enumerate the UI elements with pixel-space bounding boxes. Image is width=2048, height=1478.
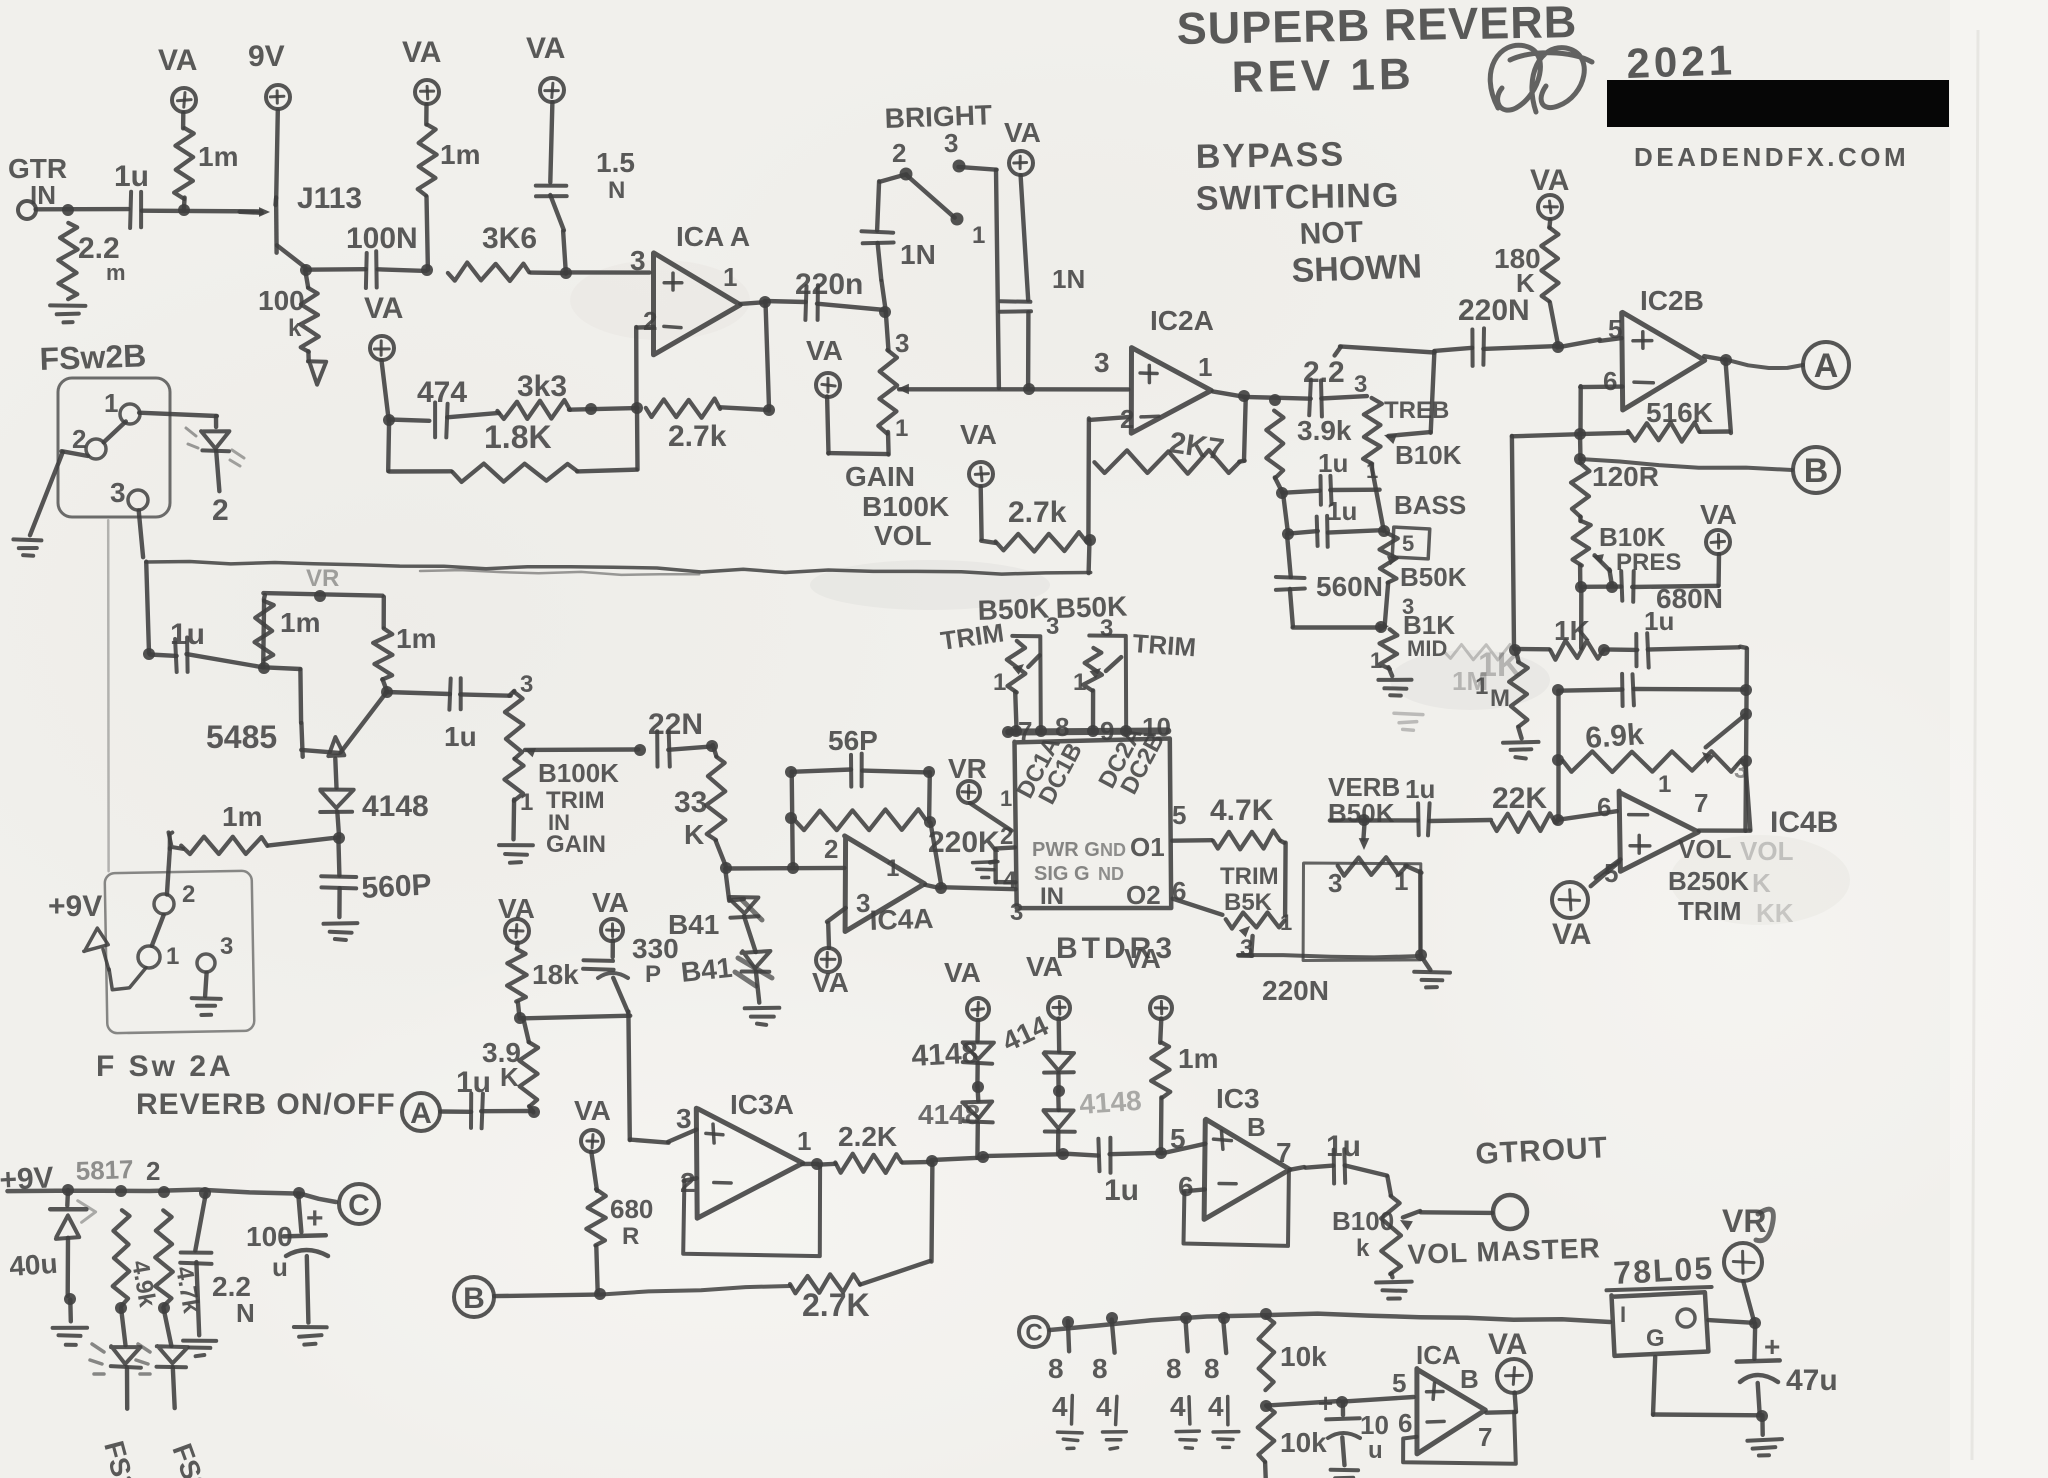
svg-text:C: C — [348, 1189, 370, 1222]
svg-text:VA: VA — [158, 44, 197, 77]
svg-text:M: M — [1490, 685, 1510, 712]
svg-text:1: 1 — [1198, 352, 1212, 382]
svg-text:7: 7 — [1478, 1422, 1492, 1452]
svg-text:3.9k: 3.9k — [1297, 415, 1352, 446]
svg-text:3: 3 — [630, 245, 646, 276]
svg-text:474: 474 — [417, 376, 467, 409]
svg-text:2021: 2021 — [1626, 36, 1737, 87]
svg-text:1: 1 — [1073, 669, 1086, 696]
svg-text:2.2K: 2.2K — [838, 1121, 897, 1152]
svg-text:2.7K: 2.7K — [802, 1287, 870, 1323]
svg-text:VOL: VOL — [874, 520, 932, 551]
svg-text:5817: 5817 — [75, 1154, 134, 1186]
svg-text:1u: 1u — [444, 721, 477, 752]
svg-text:3: 3 — [1100, 615, 1113, 642]
svg-text:1: 1 — [104, 388, 118, 418]
svg-text:1: 1 — [797, 1126, 811, 1156]
svg-text:VR: VR — [306, 565, 339, 592]
svg-text:1: 1 — [993, 669, 1006, 696]
svg-text:VA: VA — [1700, 499, 1737, 530]
svg-text:B10K: B10K — [1395, 440, 1462, 470]
svg-text:4: 4 — [1052, 1391, 1068, 1422]
svg-text:220K: 220K — [928, 826, 1000, 859]
svg-text:TREB: TREB — [1384, 397, 1449, 424]
svg-text:TRIM: TRIM — [1132, 628, 1197, 662]
svg-text:1u: 1u — [1644, 606, 1674, 636]
svg-text:8: 8 — [1166, 1353, 1182, 1384]
svg-text:TRIM: TRIM — [1220, 863, 1279, 890]
svg-text:1m: 1m — [222, 801, 262, 832]
svg-text:3: 3 — [1328, 868, 1342, 898]
svg-text:MID: MID — [1407, 636, 1447, 661]
svg-text:33: 33 — [674, 786, 707, 819]
svg-text:1: 1 — [1280, 910, 1292, 935]
svg-text:4148: 4148 — [911, 1037, 979, 1073]
svg-text:2: 2 — [892, 138, 906, 168]
svg-text:GAIN: GAIN — [845, 461, 915, 492]
svg-text:GTROUT: GTROUT — [1475, 1131, 1609, 1171]
svg-text:VA: VA — [402, 36, 441, 69]
svg-text:B10K: B10K — [1599, 522, 1666, 552]
svg-text:47u: 47u — [1786, 1364, 1838, 1397]
svg-text:PWR G: PWR G — [1032, 839, 1100, 861]
svg-text:680: 680 — [610, 1194, 653, 1224]
svg-text:DEADENDFX.COM: DEADENDFX.COM — [1634, 142, 1909, 172]
svg-text:560N: 560N — [1316, 571, 1383, 602]
svg-text:B100: B100 — [1332, 1206, 1394, 1236]
svg-text:I: I — [1620, 1302, 1626, 1327]
svg-text:VOL: VOL — [1678, 834, 1732, 864]
svg-text:TRIM: TRIM — [1678, 896, 1742, 926]
svg-text:9V: 9V — [248, 40, 285, 73]
svg-text:B250K: B250K — [1668, 866, 1749, 896]
svg-text:3k3: 3k3 — [517, 370, 567, 403]
svg-text:1m: 1m — [198, 141, 238, 172]
svg-text:REV 1B: REV 1B — [1231, 50, 1415, 102]
svg-text:PRES: PRES — [1616, 549, 1681, 576]
svg-text:GAIN: GAIN — [546, 831, 606, 858]
svg-text:G: G — [1646, 1325, 1665, 1352]
svg-text:1: 1 — [723, 262, 737, 292]
svg-text:A: A — [410, 1097, 432, 1130]
svg-text:m: m — [106, 260, 126, 285]
svg-text:B: B — [1804, 452, 1829, 490]
svg-text:40u: 40u — [8, 1248, 58, 1282]
svg-text:220N: 220N — [1458, 294, 1530, 327]
svg-text:4: 4 — [1096, 1391, 1112, 1422]
svg-text:ND: ND — [1098, 864, 1124, 884]
svg-text:330: 330 — [632, 933, 679, 964]
svg-text:VA: VA — [1004, 117, 1041, 148]
svg-text:22K: 22K — [1492, 782, 1547, 815]
svg-text:1N: 1N — [900, 239, 936, 270]
svg-text:1: 1 — [166, 943, 179, 970]
svg-text:C: C — [1025, 1320, 1042, 1347]
svg-text:3: 3 — [1010, 899, 1023, 926]
svg-text:VR: VR — [1722, 1203, 1766, 1239]
svg-text:FSw2B: FSw2B — [39, 337, 147, 377]
svg-text:k: k — [1356, 1235, 1370, 1262]
svg-text:1: 1 — [520, 789, 533, 816]
svg-text:B100K: B100K — [862, 491, 949, 522]
svg-text:3: 3 — [944, 128, 958, 158]
svg-text:BASS: BASS — [1394, 490, 1466, 520]
svg-text:VA: VA — [812, 967, 849, 998]
svg-text:2.7k: 2.7k — [668, 420, 727, 453]
svg-text:F Sw 2A: F Sw 2A — [96, 1050, 234, 1083]
svg-text:2: 2 — [824, 834, 838, 864]
svg-text:1u: 1u — [114, 160, 149, 193]
svg-text:VA: VA — [1124, 943, 1161, 974]
svg-text:1.8K: 1.8K — [484, 419, 552, 455]
svg-text:2: 2 — [146, 1156, 160, 1186]
svg-text:4148: 4148 — [918, 1099, 980, 1130]
svg-text:1: 1 — [1370, 648, 1382, 673]
svg-text:3: 3 — [1094, 347, 1110, 378]
svg-text:BRIGHT: BRIGHT — [884, 99, 992, 134]
svg-text:7: 7 — [1276, 1137, 1292, 1168]
svg-text:ND: ND — [1100, 840, 1126, 860]
svg-text:220N: 220N — [1262, 975, 1329, 1006]
svg-text:N: N — [236, 1298, 255, 1328]
svg-text:B100K: B100K — [538, 758, 619, 788]
svg-text:K: K — [1752, 868, 1771, 898]
svg-text:IC3: IC3 — [1216, 1083, 1260, 1114]
svg-text:B50K: B50K — [1055, 591, 1128, 624]
svg-text:P: P — [645, 961, 661, 988]
svg-text:4: 4 — [1170, 1391, 1186, 1422]
svg-text:B50K: B50K — [1400, 562, 1467, 592]
svg-text:K: K — [684, 819, 704, 850]
svg-text:VA: VA — [806, 335, 843, 366]
svg-text:NOT: NOT — [1299, 216, 1363, 251]
svg-text:VA: VA — [574, 1095, 611, 1126]
svg-text:10: 10 — [1360, 1410, 1389, 1440]
svg-text:B41: B41 — [679, 952, 733, 988]
svg-text:2: 2 — [643, 306, 657, 336]
svg-text:5485: 5485 — [206, 719, 277, 755]
svg-text:8: 8 — [1055, 712, 1069, 742]
svg-text:K: K — [1516, 268, 1535, 298]
svg-text:B: B — [1460, 1364, 1479, 1394]
svg-text:1m: 1m — [280, 607, 320, 638]
svg-text:ICA: ICA — [1416, 1340, 1461, 1370]
svg-text:IC4A: IC4A — [869, 903, 934, 936]
svg-text:5: 5 — [1392, 1368, 1406, 1398]
svg-text:1: 1 — [1475, 673, 1488, 700]
svg-text:1.5: 1.5 — [596, 147, 635, 178]
svg-text:120R: 120R — [1592, 461, 1659, 492]
svg-text:4148: 4148 — [1078, 1085, 1142, 1120]
svg-text:B: B — [1247, 1112, 1266, 1142]
svg-text:k: k — [288, 315, 302, 342]
svg-text:VA: VA — [1026, 951, 1063, 982]
svg-text:10k: 10k — [1280, 1341, 1327, 1372]
svg-text:VA: VA — [960, 419, 997, 450]
svg-text:1m: 1m — [1178, 1043, 1218, 1074]
svg-text:10k: 10k — [1280, 1427, 1327, 1458]
svg-text:K: K — [500, 1062, 519, 1092]
svg-text:100N: 100N — [346, 222, 418, 255]
svg-text:1K: 1K — [1554, 615, 1590, 646]
svg-text:516K: 516K — [1646, 397, 1713, 428]
svg-text:4: 4 — [1208, 1391, 1224, 1422]
svg-text:2: 2 — [182, 881, 195, 908]
svg-text:1u: 1u — [1405, 774, 1435, 804]
svg-text:56P: 56P — [828, 725, 878, 756]
svg-text:3: 3 — [1354, 371, 1367, 398]
svg-text:IC2B: IC2B — [1640, 285, 1704, 316]
svg-text:3: 3 — [856, 888, 870, 918]
svg-text:3: 3 — [895, 328, 909, 358]
svg-text:IN: IN — [1040, 883, 1064, 910]
svg-text:O1: O1 — [1130, 832, 1165, 862]
svg-text:8: 8 — [1204, 1353, 1220, 1384]
svg-text:VA: VA — [1552, 918, 1591, 951]
svg-text:1u: 1u — [1327, 496, 1357, 526]
svg-text:560P: 560P — [361, 868, 433, 905]
svg-text:IC3A: IC3A — [730, 1089, 794, 1120]
svg-text:2.7k: 2.7k — [1008, 496, 1067, 529]
svg-text:SHOWN: SHOWN — [1291, 247, 1423, 290]
svg-text:VA: VA — [944, 957, 981, 988]
svg-text:3: 3 — [220, 933, 233, 960]
svg-text:+: + — [1764, 1331, 1780, 1362]
svg-text:3: 3 — [520, 671, 533, 698]
svg-text:1u: 1u — [1104, 1174, 1139, 1207]
svg-text:1N: 1N — [1052, 264, 1085, 294]
svg-text:1u: 1u — [1318, 448, 1348, 478]
svg-text:1: 1 — [895, 415, 908, 442]
svg-text:REVERB ON/OFF: REVERB ON/OFF — [136, 1088, 396, 1121]
svg-text:IC4B: IC4B — [1770, 806, 1838, 839]
svg-text:3K6: 3K6 — [482, 222, 537, 255]
svg-text:6.9k: 6.9k — [1584, 718, 1645, 755]
svg-text:5: 5 — [1402, 531, 1414, 556]
svg-text:1: 1 — [1394, 866, 1408, 896]
svg-text:VA: VA — [592, 887, 629, 918]
svg-text:5: 5 — [1172, 800, 1186, 830]
svg-text:6: 6 — [1597, 792, 1611, 822]
svg-text:1: 1 — [886, 855, 899, 882]
svg-text:R: R — [622, 1223, 639, 1250]
svg-text:3: 3 — [110, 477, 126, 508]
svg-text:1m: 1m — [440, 139, 480, 170]
svg-text:SWITCHING: SWITCHING — [1195, 176, 1399, 218]
svg-text:2: 2 — [212, 494, 229, 527]
svg-text:3: 3 — [676, 1103, 692, 1134]
svg-text:u: u — [1368, 1437, 1383, 1464]
svg-text:4148: 4148 — [362, 790, 429, 823]
svg-text:1: 1 — [1000, 786, 1012, 811]
svg-text:+9V: +9V — [48, 890, 102, 923]
svg-text:100: 100 — [258, 285, 305, 316]
svg-text:7: 7 — [1694, 788, 1708, 818]
svg-text:18k: 18k — [532, 959, 579, 990]
svg-text:1: 1 — [972, 222, 985, 249]
svg-text:8: 8 — [1092, 1353, 1108, 1384]
svg-text:8: 8 — [1048, 1353, 1064, 1384]
svg-text:SIG G: SIG G — [1034, 863, 1090, 885]
svg-text:VOL: VOL — [1740, 836, 1794, 866]
svg-text:KK: KK — [1756, 898, 1794, 928]
svg-text:5: 5 — [1170, 1123, 1186, 1154]
svg-text:A: A — [1814, 347, 1839, 385]
svg-text:4.7K: 4.7K — [1210, 794, 1274, 827]
svg-text:N: N — [608, 177, 625, 204]
svg-text:1m: 1m — [396, 623, 436, 654]
svg-text:BYPASS: BYPASS — [1195, 135, 1345, 176]
svg-text:IC2A: IC2A — [1150, 305, 1214, 336]
svg-text:78L05: 78L05 — [1612, 1250, 1714, 1291]
svg-text:3: 3 — [1046, 613, 1059, 640]
svg-text:+: + — [1318, 1388, 1333, 1418]
svg-text:VA: VA — [1530, 164, 1569, 197]
svg-text:+: + — [306, 1202, 324, 1235]
svg-text:6: 6 — [1603, 366, 1617, 396]
svg-text:J113: J113 — [297, 182, 362, 215]
svg-text:VA: VA — [1488, 1328, 1527, 1361]
svg-text:1u: 1u — [456, 1066, 491, 1099]
svg-text:1: 1 — [1658, 771, 1671, 798]
svg-text:O2: O2 — [1126, 880, 1161, 910]
svg-text:VA: VA — [364, 292, 403, 325]
svg-text:ICA A: ICA A — [676, 221, 750, 252]
svg-text:VA: VA — [526, 32, 565, 65]
svg-text:B: B — [463, 1282, 485, 1315]
svg-text:6: 6 — [1398, 1408, 1412, 1438]
